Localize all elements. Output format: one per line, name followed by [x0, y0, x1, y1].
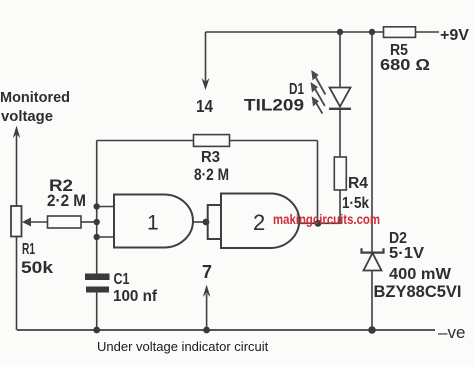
node gate2 output junction — [315, 220, 322, 227]
svg-text:14: 14 — [196, 96, 213, 116]
svg-text:100 nf: 100 nf — [113, 288, 158, 305]
pin 14 — [196, 32, 213, 116]
wire R4 bottom to output node — [318, 190, 340, 223]
node monitored voltage — [0, 89, 70, 125]
svg-text:1: 1 — [147, 212, 159, 235]
node gate1 output — [203, 219, 210, 226]
zener D2 — [362, 32, 462, 330]
node pin7 bottom — [203, 327, 210, 334]
wire gate1 input stubs — [97, 207, 114, 238]
emission arrows — [315, 76, 325, 95]
gate U2 input tie box — [208, 205, 221, 239]
svg-text:7: 7 — [202, 262, 212, 282]
node junction D2 top — [369, 29, 375, 35]
node C1 bottom — [93, 327, 100, 334]
capacitor C1 — [85, 271, 158, 330]
resistor R3 — [97, 135, 318, 184]
svg-text:voltage: voltage — [1, 108, 53, 125]
svg-text:1·5k: 1·5k — [342, 195, 369, 212]
svg-text:8·2 M: 8·2 M — [194, 166, 229, 184]
svg-text:5·1V: 5·1V — [389, 245, 424, 262]
svg-text:R3: R3 — [201, 149, 220, 166]
svg-text:2: 2 — [253, 210, 265, 235]
svg-text:680 Ω: 680 Ω — [380, 57, 430, 74]
svg-text:50k: 50k — [21, 258, 54, 277]
potentiometer R1 — [11, 126, 54, 330]
resistor R5 — [380, 27, 430, 74]
LED D1 — [244, 32, 351, 157]
wire top rail — [206, 31, 440, 33]
node D2 bottom — [368, 326, 376, 334]
svg-text:D1: D1 — [289, 81, 304, 98]
node junction D1 top — [337, 29, 343, 35]
wire left bus — [96, 141, 98, 274]
node R2 junction — [94, 219, 100, 225]
svg-text:400 mW: 400 mW — [389, 266, 452, 283]
node gate1 input A — [94, 203, 100, 209]
resistor R2 — [22, 176, 97, 228]
svg-text:TIL209: TIL209 — [244, 97, 304, 115]
resistor R4 — [334, 157, 369, 212]
svg-text:–ve: –ve — [438, 323, 465, 342]
svg-text:R1: R1 — [22, 241, 35, 258]
svg-text:Under voltage indicator circui: Under voltage indicator circuit — [97, 339, 269, 354]
svg-text:C1: C1 — [114, 271, 130, 288]
svg-text:BZY88C5VI: BZY88C5VI — [374, 283, 462, 301]
wire — [339, 32, 341, 87]
gate U1 NAND 1 — [114, 195, 208, 248]
svg-text:2·2 M: 2·2 M — [47, 192, 86, 210]
gate U2 NAND 2 — [221, 194, 318, 249]
svg-text:R4: R4 — [348, 175, 368, 192]
node gate1 input B — [94, 234, 100, 240]
wire bottom rail — [17, 329, 435, 331]
svg-text:+9V: +9V — [440, 27, 469, 44]
svg-text:Monitored: Monitored — [0, 89, 70, 106]
pin 7 — [202, 262, 212, 330]
wire R3 feedback vertical — [317, 141, 319, 224]
svg-text:makingcircuits.com: makingcircuits.com — [273, 212, 380, 227]
